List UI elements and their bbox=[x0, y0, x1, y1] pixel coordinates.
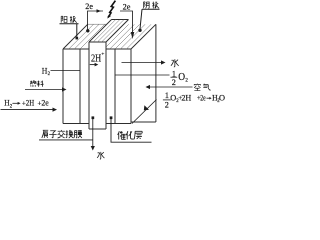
air in arrowhead bbox=[146, 85, 151, 89]
svg-text:O: O bbox=[178, 72, 185, 83]
wire dot on anode bbox=[86, 29, 89, 32]
H2 line bbox=[51, 70, 81, 72]
anode leader square dot bbox=[76, 37, 79, 40]
plate bottom edge bbox=[131, 121, 156, 123]
anode equation arrow line bbox=[1, 109, 53, 111]
svg-text:2e: 2e bbox=[123, 3, 131, 12]
water outlet arrowhead bbox=[91, 146, 95, 151]
2H+ arrow line bbox=[90, 64, 95, 66]
svg-text:2e: 2e bbox=[200, 93, 206, 103]
membrane block left depth edge bbox=[89, 20, 112, 43]
PEM underline bbox=[39, 139, 93, 141]
svg-text:H: H bbox=[4, 98, 9, 108]
fuel arrowhead bbox=[62, 87, 67, 91]
PEM fuel cell diagram bbox=[0, 0, 230, 161]
svg-text:2: 2 bbox=[185, 78, 188, 83]
anode slab left edge bbox=[62, 49, 64, 124]
anode slab right edge bbox=[79, 49, 81, 124]
anode equation arrowhead bbox=[53, 108, 58, 112]
svg-text:2H: 2H bbox=[91, 53, 101, 65]
wire arrowhead on left wire bbox=[97, 9, 102, 12]
svg-text:2H: 2H bbox=[181, 93, 191, 103]
water out arrowhead bbox=[161, 60, 166, 64]
front top edge left part bbox=[63, 48, 89, 50]
water out line bbox=[122, 62, 162, 64]
svg-text:2e: 2e bbox=[85, 2, 93, 11]
membrane block back edge bbox=[112, 19, 129, 21]
water outlet stem bbox=[92, 118, 94, 146]
plate top-left depth edge bbox=[131, 24, 156, 49]
wire left segment bbox=[88, 11, 104, 31]
depth edge at x=115 bbox=[115, 24, 140, 49]
cathode electrode left edge bbox=[114, 49, 116, 124]
fuel arrow line bbox=[25, 89, 62, 91]
svg-text:2H: 2H bbox=[26, 98, 34, 108]
svg-text:1: 1 bbox=[165, 91, 169, 100]
svg-text:2: 2 bbox=[165, 101, 169, 110]
svg-text:O: O bbox=[219, 93, 225, 103]
hatch membrane block bbox=[93, 20, 124, 43]
svg-text:+: + bbox=[101, 52, 104, 58]
cathode plate left edge bbox=[130, 49, 132, 124]
anode label underline + leader bbox=[60, 24, 79, 37]
wire right segment bbox=[120, 11, 133, 33]
hatch right group bbox=[106, 24, 151, 49]
svg-text:2e: 2e bbox=[41, 98, 49, 108]
hatching bbox=[69, 20, 151, 50]
cathode bottom edge bbox=[106, 123, 131, 125]
svg-text:2: 2 bbox=[48, 72, 51, 77]
2H+ arrowhead bbox=[95, 63, 99, 67]
membrane top edge bbox=[89, 41, 106, 43]
left group back edge bbox=[88, 23, 107, 25]
front top edge right part bbox=[106, 48, 131, 50]
svg-text:2: 2 bbox=[172, 78, 176, 87]
anode top-left depth edge bbox=[63, 24, 88, 49]
anode bottom edge bbox=[63, 123, 89, 125]
membrane right edge bbox=[105, 42, 107, 129]
cathode leader dot bbox=[138, 29, 141, 32]
lightning bolt bbox=[108, 1, 115, 18]
cathode equation leader arrowhead bbox=[144, 105, 149, 110]
air in line bbox=[150, 86, 193, 88]
svg-text:2: 2 bbox=[10, 104, 13, 109]
PEM leader dot on membrane bbox=[92, 116, 95, 119]
depth edge at x=80 bbox=[80, 24, 105, 49]
cathode plate right edge bbox=[155, 24, 157, 122]
lightning bolt tip bbox=[107, 15, 111, 19]
membrane left edge bbox=[88, 42, 90, 129]
wire arrowhead into cathode bbox=[131, 32, 135, 39]
cathode label underline + leader bbox=[140, 9, 160, 29]
water label bottom (水) bbox=[97, 152, 104, 159]
cathode equation leader line bbox=[132, 100, 157, 124]
hatch left group bbox=[69, 24, 99, 49]
catalyst leader dot + stem bbox=[110, 116, 113, 119]
svg-text:H: H bbox=[42, 65, 48, 75]
membrane block right depth edge bbox=[106, 20, 129, 43]
membrane bottom edge bbox=[89, 128, 106, 130]
water label right (水) bbox=[171, 59, 179, 67]
